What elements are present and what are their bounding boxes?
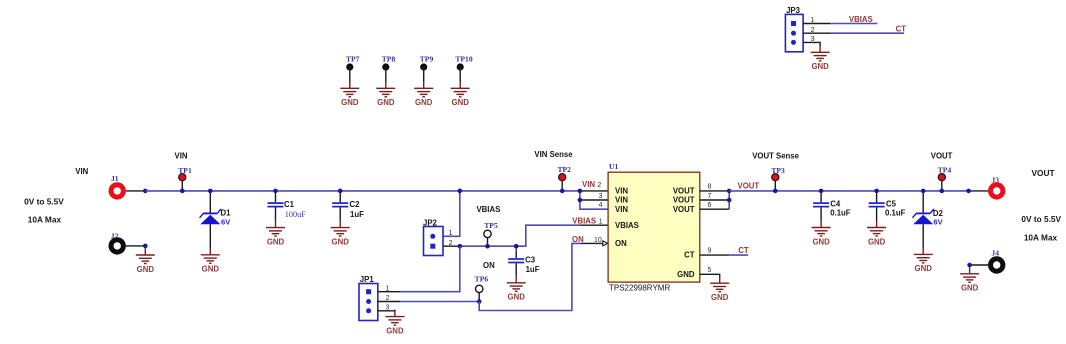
svg-text:VOUT: VOUT (673, 205, 695, 214)
node C4 (819, 189, 824, 194)
svg-text:VOUT: VOUT (931, 151, 953, 160)
svg-text:ON: ON (572, 235, 584, 244)
svg-text:5: 5 (708, 267, 712, 274)
pin line U1 pin3 (580, 199, 608, 201)
svg-text:10A Max: 10A Max (1024, 233, 1058, 243)
svg-text:VBIAS: VBIAS (615, 221, 639, 230)
ground (C5) (867, 221, 886, 247)
pin line U1 VBIAS (581, 224, 608, 226)
svg-text:7: 7 (708, 193, 712, 200)
node C2 (338, 189, 343, 194)
pin line J4 (970, 264, 988, 266)
svg-text:8: 8 (708, 183, 712, 190)
node D2 (921, 189, 926, 194)
node C1 (273, 189, 278, 194)
pin line J3 (969, 190, 988, 192)
node J2 pin (143, 244, 148, 249)
svg-text:VIN: VIN (615, 205, 628, 214)
ground (TP7) (340, 81, 359, 107)
pin line JP2-2 (443, 245, 460, 247)
ground (JP3) (811, 45, 830, 71)
svg-text:TPS22998RYMR: TPS22998RYMR (609, 284, 670, 293)
svg-text:VIN Sense: VIN Sense (534, 150, 573, 159)
svg-text:VBIAS: VBIAS (572, 217, 596, 226)
capacitor C2 (339, 191, 341, 202)
svg-text:JP3: JP3 (786, 6, 801, 15)
wire U1 VOUT bus (728, 191, 730, 209)
ground (TP10) (451, 81, 470, 107)
svg-text:TP4: TP4 (938, 166, 952, 175)
node TP1 (180, 189, 185, 194)
ground (C3) (507, 276, 526, 302)
svg-text:C2: C2 (350, 200, 361, 209)
svg-text:1uF: 1uF (350, 210, 364, 219)
svg-text:VIN: VIN (175, 151, 188, 160)
node U1 pin7 (727, 198, 732, 203)
svg-text:TP6: TP6 (475, 275, 489, 284)
pin line J2 (126, 245, 145, 247)
svg-text:0V to 5.5V: 0V to 5.5V (1021, 214, 1061, 224)
svg-text:TP9: TP9 (420, 55, 434, 64)
svg-text:TP5: TP5 (484, 221, 498, 230)
pin line U1 pin5 (GND) (700, 274, 720, 277)
svg-text:VOUT: VOUT (738, 181, 760, 190)
node TP2 (560, 189, 565, 194)
svg-text:4: 4 (599, 202, 603, 209)
ground (JP1) (385, 310, 404, 336)
wire ON net (479, 243, 581, 310)
svg-text:10A Max: 10A Max (28, 214, 62, 224)
pin line U1 pin6 (700, 208, 729, 210)
svg-text:1: 1 (599, 219, 603, 226)
pin line JP3-3 (803, 42, 820, 46)
svg-text:10: 10 (594, 237, 602, 244)
ground (D2) (914, 247, 933, 273)
pin line JP3-2 (803, 32, 830, 34)
svg-text:VOUT: VOUT (1031, 168, 1054, 178)
svg-text:VBIAS: VBIAS (849, 15, 873, 24)
svg-text:C1: C1 (284, 200, 295, 209)
svg-text:C3: C3 (525, 255, 536, 264)
svg-text:100uF: 100uF (285, 210, 306, 219)
wire JP3 pin1 (VBIAS) (830, 23, 877, 25)
node J3 pin (966, 189, 971, 194)
svg-text:CT: CT (896, 25, 907, 34)
svg-text:VIN: VIN (615, 187, 628, 196)
capacitor C1 (275, 191, 277, 202)
wire JP1 pin2 to TP6 (400, 301, 479, 303)
svg-text:9: 9 (708, 248, 712, 255)
svg-text:VIN: VIN (615, 196, 628, 205)
svg-text:TP2: TP2 (557, 165, 571, 174)
svg-text:3: 3 (599, 193, 603, 200)
svg-text:TP10: TP10 (455, 55, 473, 64)
ground (U1 pin5) (710, 276, 729, 302)
pin line U1 pin2 (580, 190, 608, 192)
svg-text:VOUT: VOUT (673, 187, 695, 196)
node J4 pin (967, 263, 972, 268)
wire VBIAS select net (460, 225, 581, 246)
wire JP3 pin2 (CT) (830, 32, 904, 34)
pin line JP1-1 (378, 291, 400, 293)
node C3 (514, 244, 519, 249)
node C5 (874, 189, 879, 194)
ground (J2) (136, 248, 155, 274)
svg-text:0V to 5.5V: 0V to 5.5V (24, 197, 64, 207)
svg-text:TP8: TP8 (382, 55, 396, 64)
svg-text:VIN: VIN (582, 180, 595, 189)
svg-text:CT: CT (684, 251, 695, 260)
wire VIN rail to JP2 pin1 (443, 191, 460, 236)
svg-text:6V: 6V (933, 217, 943, 226)
ground (J4) (960, 267, 979, 293)
node U1 pin3 (578, 198, 583, 203)
ground (TP8) (376, 81, 395, 107)
svg-text:D1: D1 (221, 209, 232, 218)
pin line U1 pin8 (700, 190, 729, 192)
ground (TP9) (414, 81, 433, 107)
svg-text:1uF: 1uF (526, 265, 540, 274)
node TP5 (485, 244, 490, 249)
ground (D1) (201, 248, 220, 274)
svg-text:TP7: TP7 (346, 55, 360, 64)
pin line JP3-1 (803, 23, 830, 25)
node JP2-2 / JP1-1 tee (458, 244, 463, 249)
node U1 pin2 (578, 189, 583, 194)
svg-text:U1: U1 (609, 162, 618, 171)
svg-text:J4: J4 (991, 248, 999, 257)
pin arrow U1 ON (603, 241, 608, 246)
wire JP1 pin1 to VBIAS net (400, 246, 460, 292)
node J1 pin (143, 189, 148, 194)
node TP3 (773, 189, 778, 194)
svg-text:C5: C5 (886, 200, 897, 209)
svg-text:6V: 6V (221, 217, 231, 226)
wire U1 VIN bus (580, 191, 608, 209)
capacitor C3 (515, 246, 517, 251)
svg-text:0.1uF: 0.1uF (830, 208, 851, 217)
capacitor C4 (820, 191, 822, 202)
wire VOUT rail (729, 190, 968, 192)
node TP4 (940, 189, 945, 194)
node D1 (208, 189, 213, 194)
wire CT stub (729, 254, 748, 256)
pin line JP1-3 (378, 311, 395, 313)
svg-text:6: 6 (708, 202, 712, 209)
diode D1 (209, 191, 211, 214)
svg-text:0.1uF: 0.1uF (885, 208, 906, 217)
diode D2 (922, 191, 924, 214)
svg-text:J1: J1 (111, 174, 119, 183)
svg-text:ON: ON (615, 239, 627, 248)
node TP6 (477, 299, 482, 304)
ground (C1) (266, 221, 285, 247)
ground (C4) (812, 221, 831, 247)
svg-text:2: 2 (597, 182, 601, 189)
capacitor C5 (876, 191, 878, 202)
node rail-JP2 (458, 189, 463, 194)
svg-text:CT: CT (738, 246, 749, 255)
svg-text:C4: C4 (830, 200, 841, 209)
pin line U1 ON (581, 242, 603, 244)
svg-text:1: 1 (449, 230, 453, 237)
svg-text:VOUT Sense: VOUT Sense (752, 152, 799, 161)
svg-text:VOUT: VOUT (673, 196, 695, 205)
svg-text:GND: GND (677, 270, 695, 279)
node U1 pin8 (727, 189, 732, 194)
svg-text:VBIAS: VBIAS (476, 205, 500, 214)
pin line U1 pin7 (700, 199, 729, 201)
svg-text:ON: ON (483, 261, 495, 270)
pin line JP1-2 (378, 301, 400, 303)
pin line J1 (126, 190, 145, 192)
wire VIN rail (145, 190, 580, 192)
ground (C2) (331, 221, 350, 247)
svg-text:VIN: VIN (75, 167, 88, 176)
pin line U1 pin9 (CT) (700, 254, 729, 256)
